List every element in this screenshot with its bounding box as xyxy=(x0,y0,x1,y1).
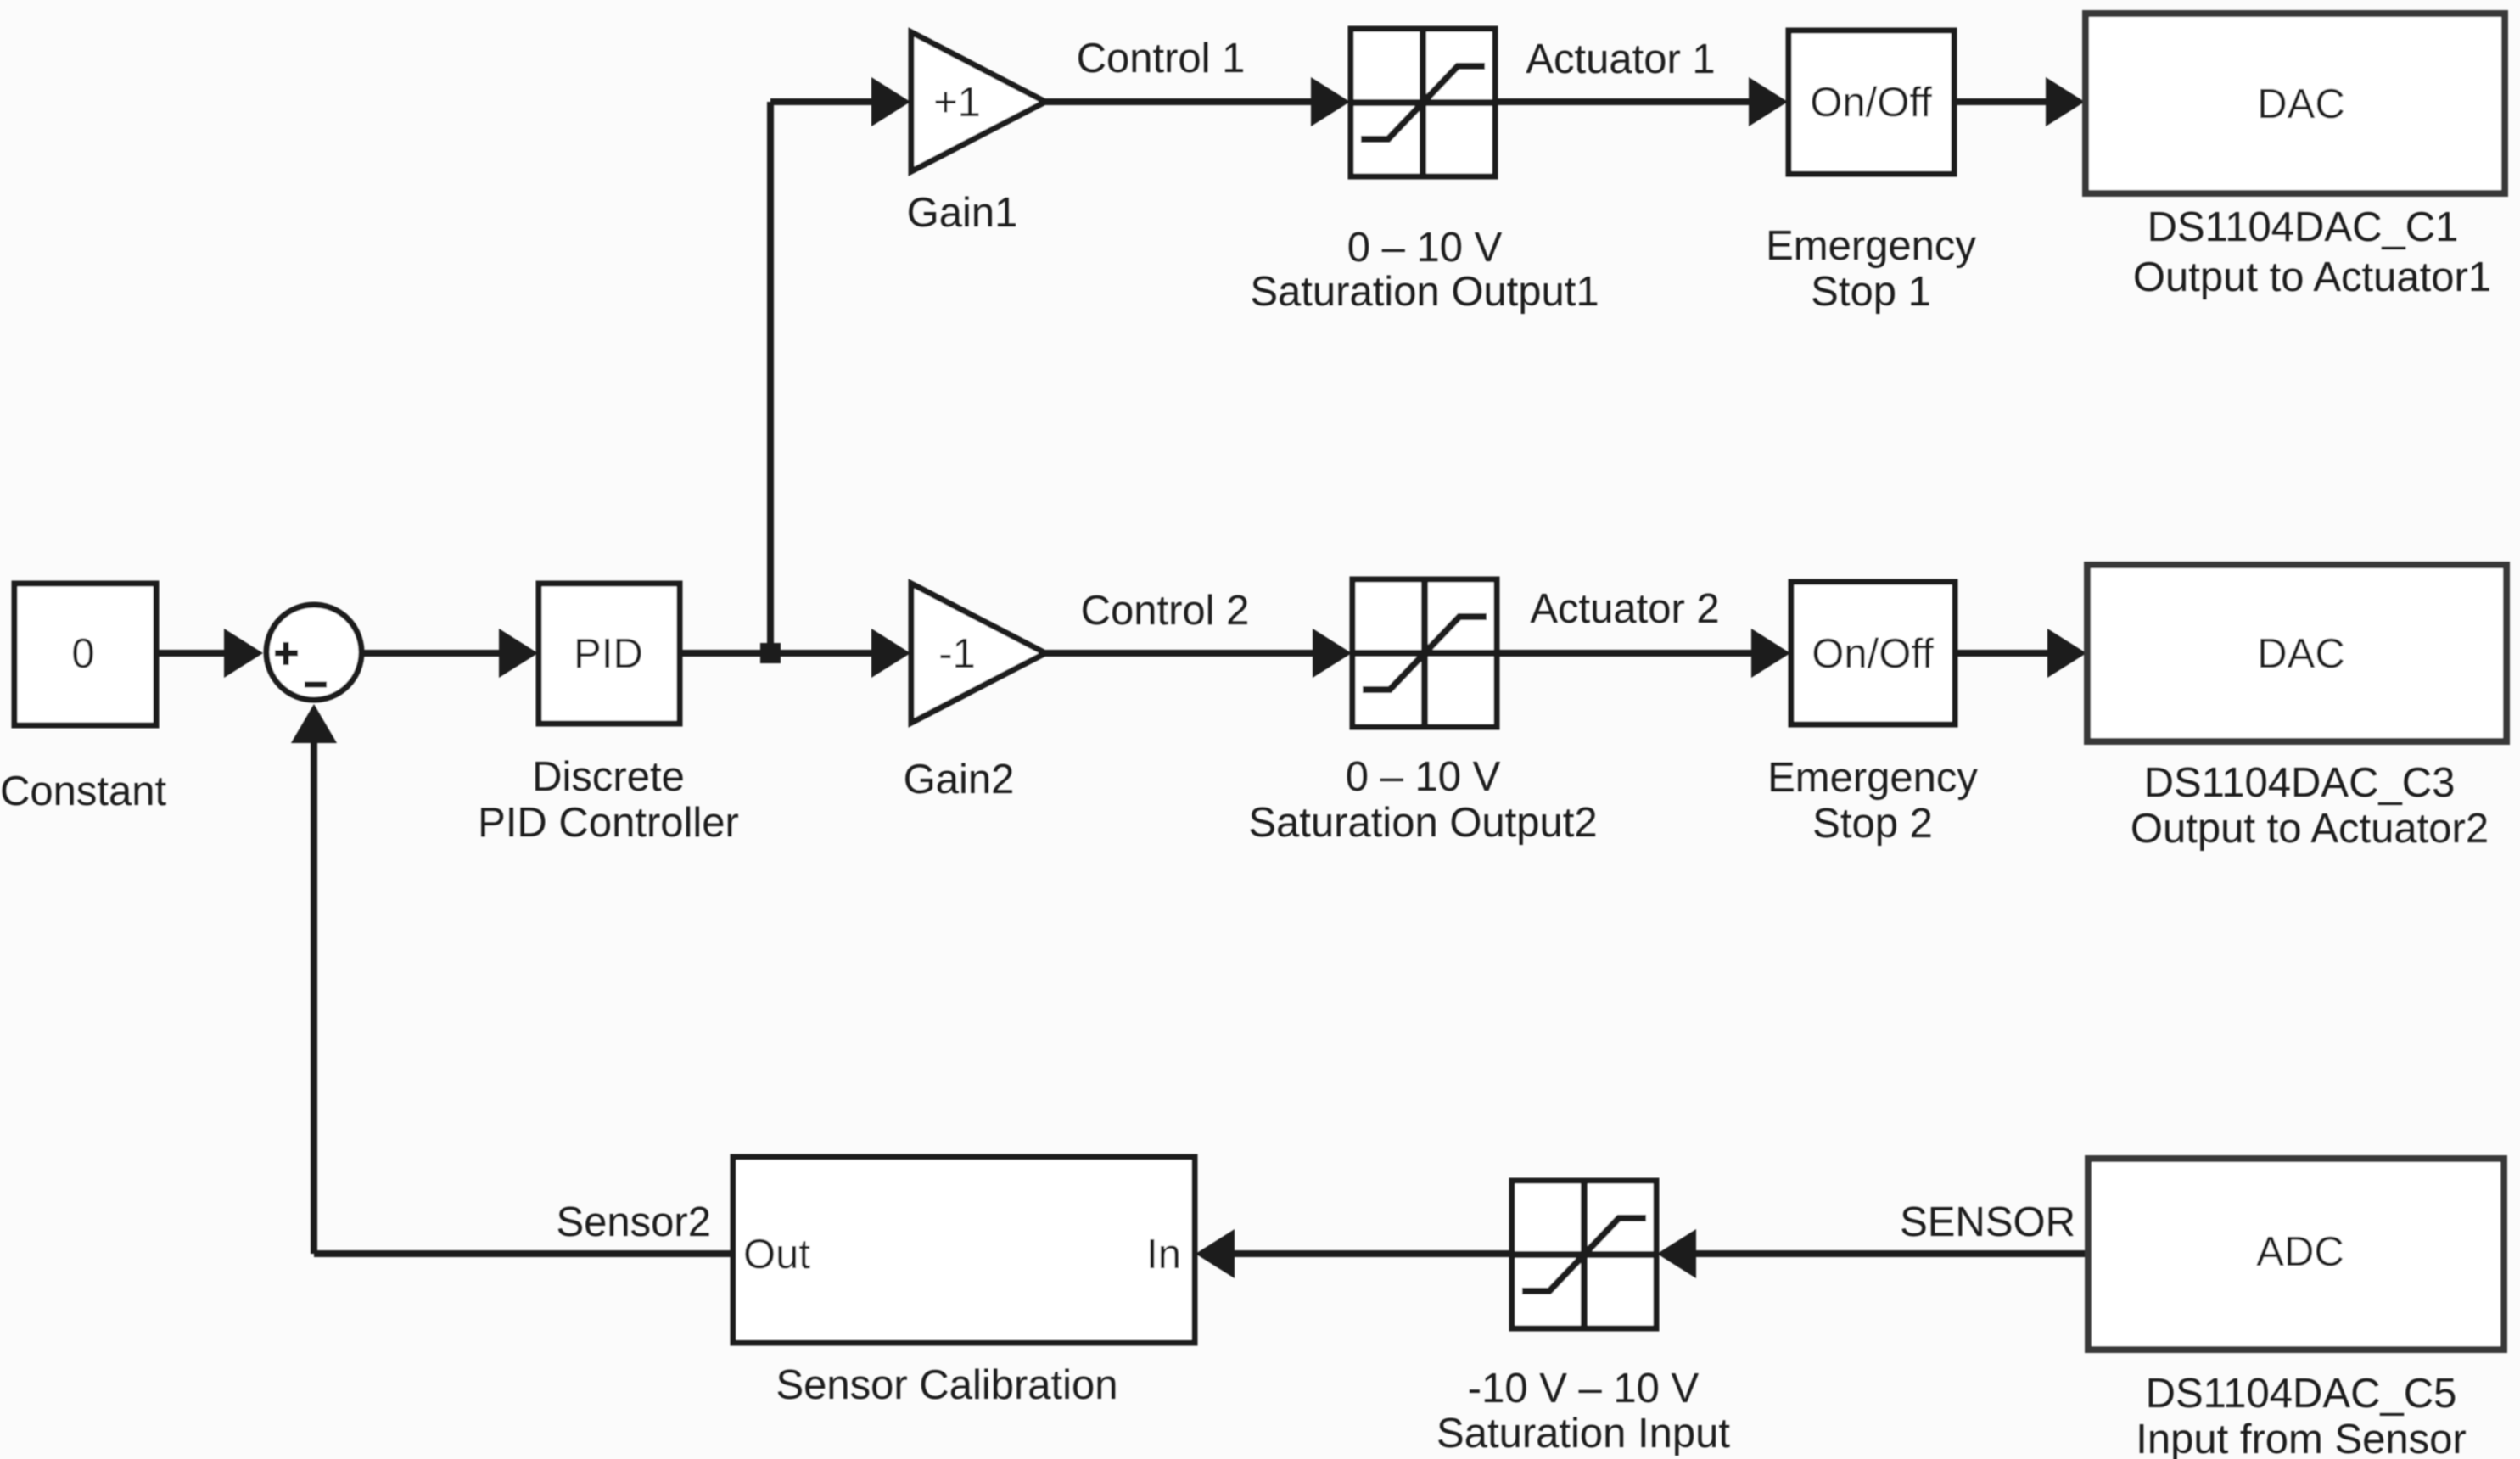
block Discrete PID Controller (PID) xyxy=(539,584,680,724)
arrowhead into PID xyxy=(499,629,538,678)
svg-text:In: In xyxy=(1146,1232,1181,1277)
arrowhead into DAC C3 xyxy=(2047,629,2086,678)
node label SENSOR xyxy=(1900,1199,2075,1245)
node label Actuator 2 xyxy=(1530,586,1719,632)
sum junction circle xyxy=(266,605,361,700)
label Gain2 xyxy=(904,757,1015,802)
wire PID to Gain2 with branch junction xyxy=(680,643,874,663)
label Emergency Stop 2 xyxy=(1767,755,1978,847)
svg-text:Emergency: Emergency xyxy=(1767,755,1978,801)
svg-text:0 – 10 V: 0 – 10 V xyxy=(1347,225,1503,271)
label -10 V - 10 V Saturation Input xyxy=(1436,1366,1730,1456)
svg-text:Constant: Constant xyxy=(0,769,166,814)
wire Saturation Input to Sensor Calibration xyxy=(1235,1250,1512,1257)
label 0 - 10 V Saturation Output2 xyxy=(1248,754,1597,846)
svg-text:Sensor2: Sensor2 xyxy=(556,1199,711,1245)
arrowhead into Emergency Stop 1 xyxy=(1749,77,1788,126)
arrowhead into Saturation Input xyxy=(1657,1229,1696,1278)
svg-text:DAC: DAC xyxy=(2257,81,2344,127)
svg-text:DS1104DAC_C1: DS1104DAC_C1 xyxy=(2148,204,2459,250)
svg-text:PID Controller: PID Controller xyxy=(478,800,739,846)
node label Sensor2 xyxy=(556,1199,711,1245)
svg-text:DS1104DAC_C5: DS1104DAC_C5 xyxy=(2146,1371,2457,1417)
svg-text:Input from Sensor: Input from Sensor xyxy=(2136,1417,2466,1459)
svg-text:Gain2: Gain2 xyxy=(904,757,1015,802)
gain block Gain1 (+1) xyxy=(911,32,1045,171)
wire Saturation Output1 to Emergency Stop 1 xyxy=(1495,98,1751,105)
wire branch from PID output node up to Gain1 input xyxy=(770,102,874,653)
arrowhead into Saturation Output2 xyxy=(1313,629,1352,678)
svg-text:Saturation Input: Saturation Input xyxy=(1436,1411,1730,1456)
arrowhead into Gain1 xyxy=(871,77,910,126)
svg-text:DAC: DAC xyxy=(2257,631,2344,677)
label Gain1 xyxy=(907,190,1018,236)
wire Gain2 to Saturation Output2 xyxy=(1045,650,1315,657)
label DS1104DAC_C1 Output to Actuator1 xyxy=(2133,204,2491,300)
label Emergency Stop 1 xyxy=(1766,223,1976,315)
svg-text:0 – 10 V: 0 – 10 V xyxy=(1346,754,1501,800)
label Sensor Calibration xyxy=(776,1362,1117,1408)
block Emergency Stop 2 (On/Off) xyxy=(1791,582,1955,724)
svg-text:-1: -1 xyxy=(938,631,976,677)
svg-text:PID: PID xyxy=(574,631,643,677)
block DS1104DAC_C1 (DAC) xyxy=(2086,14,2505,193)
wire Emergency Stop 2 to DAC C3 xyxy=(1955,650,2050,657)
feedback wire Sensor Calibration Out to Sum minus input xyxy=(314,740,733,1254)
arrowhead into Sensor Calibration In port xyxy=(1196,1229,1235,1278)
svg-text:-10 V – 10 V: -10 V – 10 V xyxy=(1468,1366,1700,1411)
label DS1104DAC_C5 Input from Sensor xyxy=(2136,1371,2466,1459)
node label Control 2 xyxy=(1081,588,1250,634)
svg-text:On/Off: On/Off xyxy=(1810,80,1932,126)
arrowhead into Gain2 xyxy=(871,629,910,678)
wire Gain1 to Saturation Output1 xyxy=(1045,98,1313,105)
block Constant (0) xyxy=(14,584,156,725)
svg-text:+1: +1 xyxy=(933,80,981,126)
svg-text:ADC: ADC xyxy=(2256,1229,2344,1275)
svg-text:Emergency: Emergency xyxy=(1766,223,1976,269)
wire Constant to Sum xyxy=(156,650,227,657)
saturation block Saturation Output1 xyxy=(1351,29,1495,176)
wire Sum to PID xyxy=(361,650,502,657)
node label Control 1 xyxy=(1077,36,1246,81)
wire Emergency Stop 1 to DAC C1 xyxy=(1954,98,2048,105)
saturation block Saturation Input xyxy=(1512,1181,1656,1328)
svg-text:Output to Actuator2: Output to Actuator2 xyxy=(2131,806,2489,852)
label DS1104DAC_C3 Output to Actuator2 xyxy=(2131,760,2489,852)
svg-text:On/Off: On/Off xyxy=(1812,631,1934,677)
gain block Gain2 (-1) xyxy=(911,584,1045,723)
svg-text:Sensor Calibration: Sensor Calibration xyxy=(776,1362,1117,1408)
svg-text:Out: Out xyxy=(743,1232,810,1277)
arrowhead into Sum xyxy=(224,629,263,678)
svg-text:Actuator 1: Actuator 1 xyxy=(1526,36,1715,82)
wire Saturation Output2 to Emergency Stop 2 xyxy=(1497,650,1754,657)
svg-text:0: 0 xyxy=(71,631,94,677)
label 0 - 10 V Saturation Output1 xyxy=(1250,225,1599,315)
svg-text:Stop 2: Stop 2 xyxy=(1812,801,1933,847)
wire ADC to Saturation Input xyxy=(1696,1250,2088,1257)
arrowhead up into Sum minus input xyxy=(291,704,337,743)
svg-text:Gain1: Gain1 xyxy=(907,190,1018,236)
label Constant xyxy=(0,769,166,814)
label Discrete PID Controller xyxy=(478,754,739,846)
saturation block Saturation Output2 xyxy=(1352,579,1497,727)
svg-text:Saturation Output1: Saturation Output1 xyxy=(1250,269,1599,315)
svg-text:Saturation Output2: Saturation Output2 xyxy=(1248,800,1597,846)
svg-text:Control 1: Control 1 xyxy=(1077,36,1246,81)
svg-text:Discrete: Discrete xyxy=(532,754,685,800)
svg-text:Control 2: Control 2 xyxy=(1081,588,1250,634)
arrowhead into DAC C1 xyxy=(2046,77,2085,126)
arrowhead into Saturation Output1 xyxy=(1311,77,1350,126)
block Sensor Calibration xyxy=(733,1157,1195,1343)
arrowhead into Emergency Stop 2 xyxy=(1751,629,1790,678)
svg-text:DS1104DAC_C3: DS1104DAC_C3 xyxy=(2144,760,2456,806)
svg-text:SENSOR: SENSOR xyxy=(1900,1199,2075,1245)
block DS1104DAC_C3 (DAC) xyxy=(2087,565,2506,741)
svg-text:Output to Actuator1: Output to Actuator1 xyxy=(2133,254,2491,300)
svg-text:Actuator 2: Actuator 2 xyxy=(1530,586,1719,632)
block Emergency Stop 1 (On/Off) xyxy=(1789,31,1954,174)
node label Actuator 1 xyxy=(1526,36,1715,82)
svg-text:Stop 1: Stop 1 xyxy=(1811,269,1931,315)
block DS1104DAC_C5 (ADC) xyxy=(2088,1159,2504,1350)
